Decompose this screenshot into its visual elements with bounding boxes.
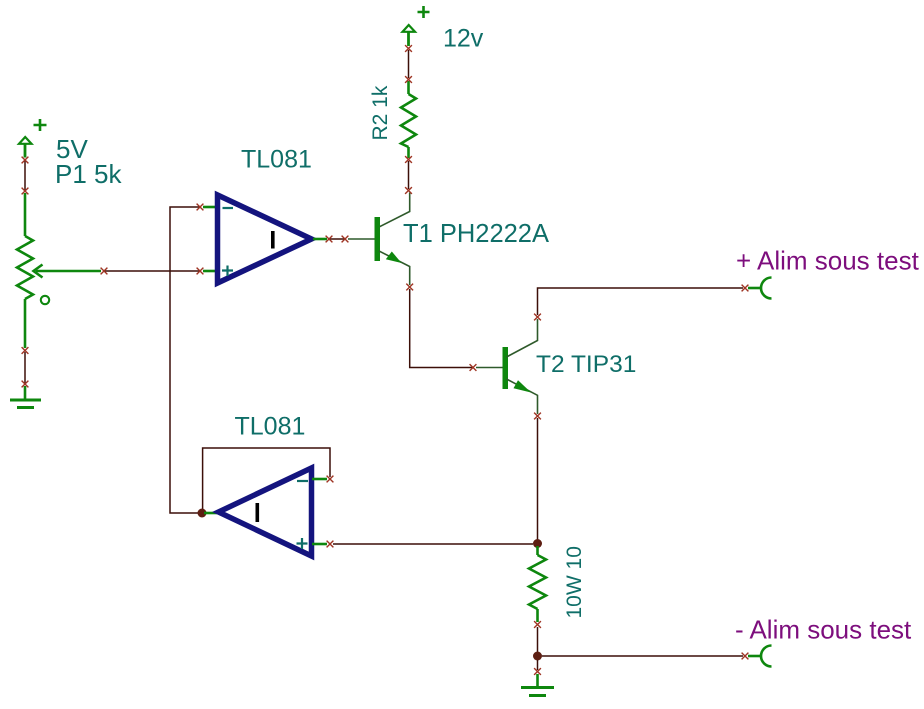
op-amp U2 minus sign <box>297 480 308 482</box>
x - connector <box>742 653 749 660</box>
x T1 collector <box>405 187 412 194</box>
resistor R3 10W body <box>529 555 546 609</box>
x U1 -in <box>197 204 204 211</box>
x T2 collector <box>534 314 541 321</box>
pin R2 bottom <box>407 147 410 158</box>
x pot top <box>22 188 29 195</box>
x U1 out b <box>342 236 349 243</box>
x U1 +in <box>197 268 204 275</box>
wire T2 collector to + output <box>538 288 744 315</box>
pin ground lead <box>24 386 27 399</box>
svg-text:TL081: TL081 <box>235 413 306 441</box>
x T1 emitter <box>406 284 413 291</box>
op-amp U1 bar <box>271 231 275 249</box>
pin R3 top <box>536 546 539 555</box>
x U2 -in <box>327 476 334 483</box>
transistor T1 emitter arrow <box>386 252 402 264</box>
svg-text:12v: 12v <box>443 25 484 53</box>
wire wiper to op-amp U1 + input <box>104 270 199 272</box>
svg-text:R2 1k: R2 1k <box>369 85 392 140</box>
pin U2 output stub <box>204 512 217 515</box>
x R2 top <box>405 76 412 83</box>
op-amp U2 body <box>219 468 312 556</box>
wire sense node to U2 + input <box>333 543 533 545</box>
resistor R2 body <box>401 94 416 147</box>
wire R2 to T1 collector <box>408 161 410 189</box>
connector - Alim <box>761 646 772 667</box>
power symbol 5V arrow <box>19 137 32 158</box>
x ground left <box>22 381 29 388</box>
wire pot to ground <box>24 352 26 383</box>
pin U2 +in stub <box>312 543 327 546</box>
op-amp U1 plus sign <box>222 266 233 277</box>
x U2 +in <box>327 541 334 548</box>
pin U1 output stub <box>313 238 327 241</box>
pin pot top <box>24 193 27 236</box>
x wiper <box>101 268 108 275</box>
wire U2 feedback out to -in <box>203 448 330 510</box>
svg-text:TL081: TL081 <box>241 146 312 174</box>
wire U2 output to U1 - input (feedback net) <box>170 207 200 513</box>
pin R3 bottom <box>536 609 539 622</box>
wire T1 emitter to T2 base <box>410 289 474 368</box>
wire 5V to pot (upper) <box>24 160 26 191</box>
svg-text:T1 PH2222A: T1 PH2222A <box>403 220 549 248</box>
transistor T1 emitter lead <box>379 251 410 285</box>
op-amp U1 minus sign <box>223 207 234 209</box>
wire U1 out to T1 base <box>330 238 344 240</box>
transistor T1 base bar <box>375 217 381 261</box>
pin T1 base lead <box>348 238 375 240</box>
x pot bottom <box>22 347 29 354</box>
potentiometer P1 body <box>17 236 33 299</box>
junction markers (x) <box>22 45 749 675</box>
pin R2 top <box>407 81 410 94</box>
transistor T2 base bar <box>503 347 509 389</box>
pot marker o <box>41 296 49 304</box>
ground (left) <box>10 400 41 408</box>
transistor T1 collector lead <box>379 193 410 228</box>
wire ground node down <box>537 660 539 670</box>
op-amp U1 body <box>218 195 312 283</box>
pin - connector stub <box>748 655 762 658</box>
junction sense node <box>533 539 542 548</box>
op-amp U2 bar <box>256 503 260 522</box>
pin T2 base lead <box>476 367 503 369</box>
wire ground node to - output <box>542 655 743 657</box>
transistor T2 emitter lead <box>507 379 538 414</box>
wire 12v to R2 <box>408 50 410 78</box>
transistor T2 emitter arrow <box>514 380 532 392</box>
junction U2 output <box>198 509 207 518</box>
x U1 out a <box>326 236 333 243</box>
transistor T2 collector lead <box>507 319 538 357</box>
potentiometer wiper arrow <box>34 265 102 278</box>
x T2 base <box>470 364 477 371</box>
svg-text:T2 TIP31: T2 TIP31 <box>536 351 636 378</box>
pin U1 +in stub <box>203 270 217 273</box>
x T2 emitter <box>534 413 541 420</box>
svg-text:10W 10: 10W 10 <box>563 546 586 618</box>
connector + Alim <box>761 278 772 299</box>
op-amp U2 plus sign <box>297 538 308 549</box>
x R2 bottom <box>405 156 412 163</box>
node +5V plus sign <box>34 119 47 131</box>
power symbol 12v arrow <box>403 25 416 46</box>
svg-text:+ Alim sous test: + Alim sous test <box>736 246 920 276</box>
pin + connector stub <box>748 287 762 290</box>
junction ground node <box>533 652 542 661</box>
x ground right <box>534 668 541 675</box>
wire R3 to ground node <box>537 627 539 653</box>
svg-text:P1 5k: P1 5k <box>55 159 122 189</box>
svg-text:- Alim sous test: - Alim sous test <box>735 615 912 645</box>
ground (right) <box>521 688 554 696</box>
pin U1 -in stub <box>203 206 217 209</box>
pin pot bottom <box>24 299 27 348</box>
node +12v plus sign <box>418 6 430 18</box>
wire T2 emitter to sense node <box>537 418 539 540</box>
x R3 bottom <box>534 621 541 628</box>
x 5V top <box>22 157 29 164</box>
pin U2 -in stub <box>312 478 327 481</box>
x 12v <box>405 45 412 52</box>
x + connector <box>742 285 749 292</box>
pin ground lead (right) <box>536 674 539 687</box>
